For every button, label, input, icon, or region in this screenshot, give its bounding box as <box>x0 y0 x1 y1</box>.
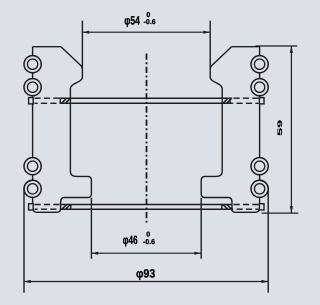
svg-text:0: 0 <box>146 12 150 19</box>
svg-text:59: 59 <box>276 120 284 136</box>
svg-text:-0.6: -0.6 <box>144 19 156 26</box>
svg-text:φ93: φ93 <box>136 266 155 280</box>
svg-text:0: 0 <box>146 232 150 239</box>
svg-text:φ46: φ46 <box>123 233 138 247</box>
svg-text:φ54: φ54 <box>124 13 140 27</box>
svg-text:-0.6: -0.6 <box>143 239 155 246</box>
